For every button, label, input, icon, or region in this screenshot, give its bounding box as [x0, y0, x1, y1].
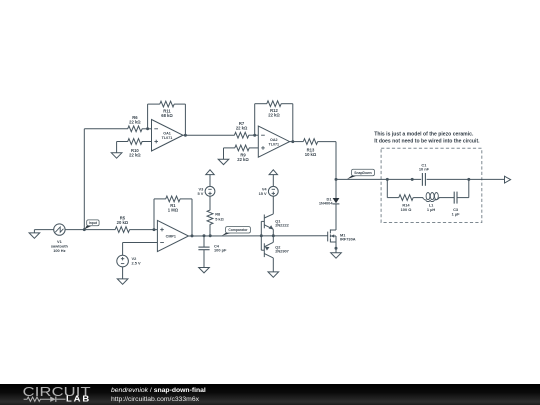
wire — [148, 103, 160, 105]
node Q1 Q2 base — [260, 234, 263, 237]
CircuitLab logo — [22, 385, 97, 405]
voltage source V3 — [197, 186, 214, 196]
wire — [34, 229, 53, 231]
svg-text:22 kΩ: 22 kΩ — [129, 119, 141, 124]
node OA2 inverting input — [253, 134, 256, 137]
svg-text:68 kΩ: 68 kΩ — [161, 113, 173, 118]
svg-text:OA2: OA2 — [270, 138, 278, 142]
wire — [180, 198, 192, 200]
node piezo left — [386, 178, 389, 181]
wire — [209, 196, 211, 210]
inductor L1 — [423, 193, 440, 212]
svg-text:1 MΩ: 1 MΩ — [168, 207, 179, 212]
resistor R6 — [128, 115, 142, 132]
wire — [292, 104, 294, 142]
wire — [142, 141, 152, 143]
wire — [142, 128, 152, 130]
svg-text:2N2907: 2N2907 — [275, 248, 289, 253]
ground — [111, 142, 122, 159]
wire — [335, 204, 337, 230]
ground — [199, 268, 210, 273]
wire — [209, 224, 211, 236]
flag SnapDown — [347, 169, 375, 179]
wire — [122, 243, 124, 256]
svg-text:22 kΩ: 22 kΩ — [236, 126, 248, 131]
resistor R5 — [115, 216, 129, 233]
svg-text:10 nF: 10 nF — [419, 167, 430, 172]
ground — [331, 253, 342, 258]
diode D1 1N4004 — [319, 197, 340, 206]
svg-text:This is just a model of the pi: This is just a model of the piezo cerami… — [374, 131, 474, 137]
svg-text:TL071: TL071 — [162, 136, 173, 140]
resistor R11 — [160, 101, 174, 118]
wire — [386, 179, 388, 197]
node emitter junction — [272, 234, 275, 237]
node Input — [83, 228, 86, 231]
wire — [413, 197, 423, 199]
voltage source V4 — [259, 186, 279, 196]
power flag — [269, 170, 277, 187]
svg-text:20 kΩ: 20 kΩ — [117, 220, 129, 225]
node CMP1 plus input — [153, 228, 156, 231]
svg-text:100 Hz: 100 Hz — [53, 248, 65, 253]
wire — [83, 129, 85, 230]
wire — [122, 267, 124, 279]
wire — [154, 198, 166, 200]
wire — [184, 104, 186, 135]
node wire joint — [411, 178, 414, 181]
flag Comparator — [222, 227, 251, 236]
svg-text:It does not need to be wired i: It does not need to be wired into the ci… — [374, 139, 480, 145]
svg-text:1N4004: 1N4004 — [319, 201, 333, 206]
op-amp CMP1 — [157, 220, 188, 251]
svg-text:IRF730A: IRF730A — [340, 237, 356, 242]
svg-text:1 µH: 1 µH — [427, 207, 435, 212]
wire — [249, 147, 258, 149]
capacitor C4 — [198, 244, 227, 253]
node SnapDown — [335, 178, 338, 181]
ground — [268, 272, 279, 277]
wire — [335, 142, 337, 180]
wire — [439, 197, 454, 199]
resistor R7 — [234, 121, 248, 138]
wire — [318, 141, 336, 143]
resistor R12 — [267, 101, 281, 118]
svg-text:22 kΩ: 22 kΩ — [129, 153, 141, 158]
resistor R9 — [235, 145, 250, 162]
svg-text:CMP1: CMP1 — [166, 234, 176, 238]
svg-text:TL071: TL071 — [268, 142, 279, 146]
resistor R14 — [399, 195, 413, 212]
svg-text:22 kΩ: 22 kΩ — [268, 113, 280, 118]
svg-text:Input: Input — [89, 221, 98, 225]
svg-text:LAB: LAB — [66, 394, 91, 403]
transistor M1 IRF730A — [328, 229, 356, 242]
wire — [147, 104, 149, 129]
resistor R8 — [207, 210, 224, 224]
node OA1 inverting input — [146, 127, 149, 130]
power flag — [206, 170, 214, 187]
svg-text:2.5 V: 2.5 V — [132, 261, 141, 266]
wire — [427, 178, 505, 180]
capacitor C1 — [419, 162, 430, 186]
op-amp OA1 — [152, 120, 183, 151]
resistor R1 — [166, 196, 180, 212]
svg-text:22 kΩ: 22 kΩ — [237, 157, 249, 162]
node OA1 output — [184, 134, 187, 137]
wire — [174, 103, 185, 105]
wire — [117, 141, 128, 143]
transistor Q1 2N2222 — [261, 214, 289, 236]
svg-text:100 Ω: 100 Ω — [401, 207, 412, 212]
svg-text:Comparator: Comparator — [228, 228, 248, 232]
wire — [468, 179, 470, 197]
wire — [255, 103, 267, 105]
wire — [260, 221, 262, 250]
node M1 source — [335, 247, 338, 250]
wire — [189, 235, 328, 237]
node OA2 output — [291, 140, 294, 143]
wire — [335, 179, 337, 198]
svg-text:2N2222: 2N2222 — [275, 223, 289, 228]
svg-text:100 pF: 100 pF — [214, 248, 227, 253]
svg-text:5 kΩ: 5 kΩ — [215, 216, 224, 221]
wire — [224, 147, 236, 149]
ground — [218, 148, 229, 165]
svg-text:SnapDown: SnapDown — [354, 171, 372, 175]
node R8 bottom — [209, 234, 212, 237]
ground — [117, 279, 128, 284]
wire — [254, 104, 256, 136]
wire — [457, 197, 469, 199]
wire — [183, 134, 235, 136]
resistor R10 — [128, 139, 142, 158]
wire — [123, 242, 158, 244]
ground — [29, 230, 40, 239]
wire — [203, 236, 205, 247]
dashed model box — [381, 148, 482, 222]
voltage source V2 — [117, 255, 141, 267]
wire — [203, 250, 205, 268]
svg-text:OA1: OA1 — [163, 131, 171, 135]
resistor R13 — [303, 139, 317, 157]
svg-text:1 µF: 1 µF — [452, 212, 460, 217]
wire — [249, 134, 259, 136]
flag Input — [84, 220, 99, 229]
wire — [191, 199, 193, 236]
svg-text:15 V: 15 V — [259, 191, 267, 196]
transistor Q2 2N2907 — [261, 236, 289, 272]
wire — [281, 103, 293, 105]
wire — [272, 196, 274, 214]
node C4 top — [203, 234, 206, 237]
wire — [336, 178, 421, 180]
wire — [65, 229, 84, 231]
wire — [290, 141, 304, 143]
output terminal — [505, 176, 511, 183]
svg-text:5 V: 5 V — [197, 191, 203, 196]
op-amp OA2 — [258, 126, 289, 157]
annotation text — [374, 131, 480, 144]
wire — [84, 128, 128, 130]
wire — [153, 199, 155, 230]
capacitor C3 — [452, 192, 460, 217]
node piezo right — [467, 178, 470, 181]
wire — [335, 242, 337, 253]
voltage source V1 sawtooth — [51, 224, 69, 253]
wire — [129, 229, 157, 231]
wire — [84, 229, 115, 231]
wire — [387, 197, 399, 199]
node CMP1 output — [191, 234, 194, 237]
svg-text:10 kΩ: 10 kΩ — [305, 152, 317, 157]
